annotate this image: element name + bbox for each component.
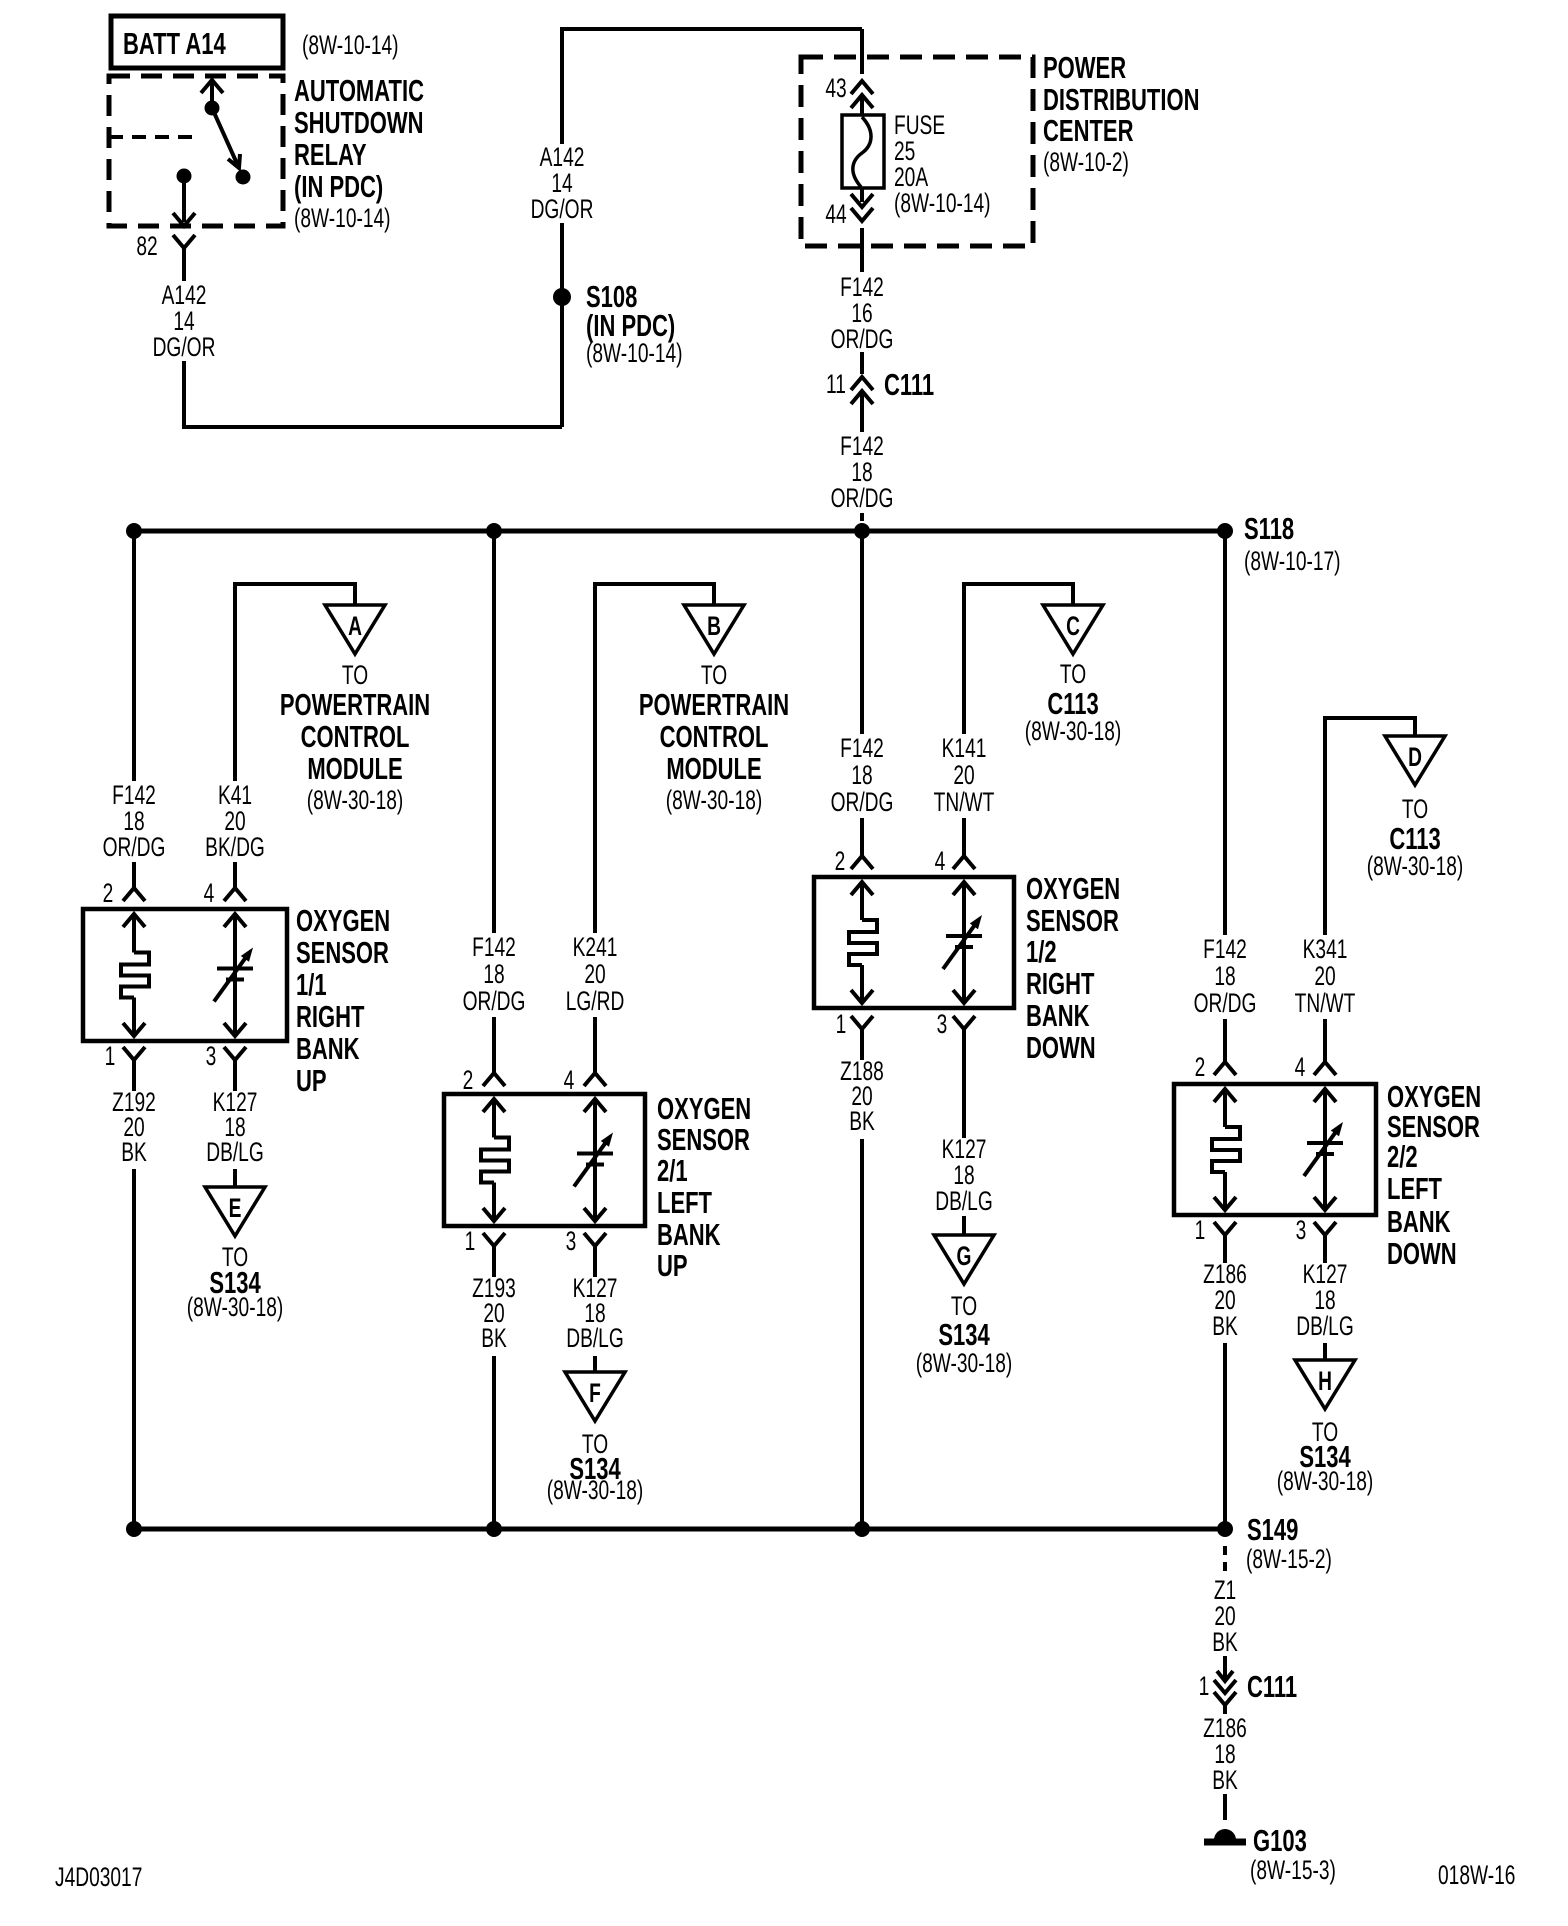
junction dot S118 col1	[126, 523, 142, 539]
wire F142 18 OR/DG to S118	[860, 392, 864, 432]
wire F142 18 OR/DG col4	[1223, 531, 1227, 935]
splice S149	[1217, 1521, 1233, 1537]
svg-text:F142: F142	[472, 932, 516, 962]
svg-text:CENTER: CENTER	[1043, 113, 1133, 148]
wire K41 col1 to PCM triangle A	[235, 584, 355, 781]
ASD relay arrow to BATT	[210, 82, 214, 108]
svg-text:018W-16: 018W-16	[1438, 1860, 1515, 1890]
svg-text:82: 82	[136, 231, 157, 261]
wire stub to triangle G	[962, 1216, 966, 1235]
svg-text:1: 1	[836, 1009, 847, 1039]
wire to pin 2 col4	[1223, 1019, 1227, 1063]
svg-text:2/1: 2/1	[657, 1153, 688, 1188]
svg-text:SENSOR: SENSOR	[657, 1122, 750, 1157]
ASD relay stationary contact	[236, 170, 251, 185]
wire stub to triangle E	[233, 1169, 237, 1187]
svg-text:POWERTRAIN: POWERTRAIN	[639, 687, 789, 722]
wire F142 18 OR/DG col1	[132, 531, 136, 781]
wire stub to triangle H	[1323, 1343, 1327, 1360]
wire to pin 2 col3	[860, 818, 864, 856]
svg-text:DG/OR: DG/OR	[531, 194, 594, 224]
svg-text:(8W-10-14): (8W-10-14)	[586, 338, 683, 368]
splice S108 (in PDC)	[553, 288, 571, 306]
junction dot S118 col2	[486, 523, 502, 539]
svg-text:DG/OR: DG/OR	[153, 332, 216, 362]
wire K127 from pin 3 col4	[1323, 1235, 1327, 1263]
svg-text:S118: S118	[1244, 511, 1294, 546]
svg-text:OR/DG: OR/DG	[831, 324, 894, 354]
svg-text:MODULE: MODULE	[666, 751, 761, 786]
svg-text:F: F	[589, 1378, 601, 1408]
svg-text:OXYGEN: OXYGEN	[1026, 871, 1120, 906]
wire F142 18 OR/DG col2	[492, 531, 496, 933]
svg-text:20: 20	[1314, 961, 1335, 991]
svg-text:2: 2	[835, 846, 846, 876]
svg-text:(8W-30-18): (8W-30-18)	[1277, 1466, 1374, 1496]
svg-text:BK: BK	[1212, 1765, 1238, 1795]
svg-text:(8W-30-18): (8W-30-18)	[666, 785, 763, 815]
svg-text:(8W-10-2): (8W-10-2)	[1043, 147, 1129, 177]
svg-text:DB/LG: DB/LG	[935, 1186, 993, 1216]
svg-text:BANK: BANK	[1387, 1204, 1451, 1239]
svg-text:3: 3	[566, 1226, 577, 1256]
wire K341 col4 to triangle D	[1325, 718, 1415, 935]
wire A142 down and right to S108 branch	[184, 361, 562, 427]
svg-text:K241: K241	[573, 932, 618, 962]
svg-text:RELAY: RELAY	[294, 137, 367, 172]
svg-text:BK: BK	[481, 1323, 507, 1353]
svg-text:18: 18	[1214, 961, 1235, 991]
svg-text:OXYGEN: OXYGEN	[657, 1091, 751, 1126]
svg-text:SHUTDOWN: SHUTDOWN	[294, 105, 424, 140]
power distribution center	[801, 57, 1033, 246]
oxygen sensor 1/2 right bank down	[814, 877, 1014, 1008]
svg-text:11: 11	[826, 369, 846, 399]
wire A142 14 DG/OR from relay pin 82	[182, 262, 186, 281]
wire to pin 4 col3	[962, 818, 966, 856]
svg-text:UP: UP	[296, 1063, 327, 1098]
wire to pin 4 col1	[233, 862, 237, 888]
oxygen sensor 2/2 left bank down	[1174, 1084, 1376, 1215]
wire Z1 into C111	[1223, 1656, 1227, 1680]
wire to pin 2 col2	[492, 1017, 496, 1073]
svg-text:BANK: BANK	[657, 1217, 721, 1252]
svg-text:BK/DG: BK/DG	[205, 832, 265, 862]
svg-text:2: 2	[463, 1065, 474, 1095]
wire K127 from pin 3	[233, 1060, 237, 1091]
svg-text:DOWN: DOWN	[1387, 1236, 1457, 1271]
svg-text:2: 2	[1195, 1052, 1206, 1082]
svg-text:1/1: 1/1	[296, 967, 327, 1002]
wire Z188 from pin 1	[860, 1029, 864, 1060]
wire K241 col2 to PCM triangle B	[595, 584, 714, 933]
svg-text:BK: BK	[1212, 1627, 1238, 1657]
wire to pin 2 col1	[132, 862, 136, 888]
svg-text:S149: S149	[1247, 1512, 1298, 1547]
svg-text:H: H	[1318, 1366, 1332, 1396]
connector C111 pin 1	[1217, 1671, 1233, 1681]
triangle E to S134	[205, 1187, 265, 1236]
ground G103	[1214, 1829, 1236, 1840]
svg-text:1: 1	[1195, 1215, 1206, 1245]
svg-text:G: G	[957, 1241, 972, 1271]
svg-text:OXYGEN: OXYGEN	[296, 903, 390, 938]
svg-text:J4D03017: J4D03017	[55, 1862, 142, 1892]
dashed wire below S149	[1223, 1546, 1227, 1575]
svg-text:BANK: BANK	[296, 1031, 360, 1066]
svg-text:DOWN: DOWN	[1026, 1030, 1096, 1065]
triangle H to S134	[1295, 1360, 1355, 1409]
wire fuse to pin 44	[860, 188, 864, 202]
junction dot S149 col2	[486, 1521, 502, 1537]
svg-text:BANK: BANK	[1026, 998, 1090, 1033]
wire pin43 to fuse	[860, 96, 864, 116]
svg-text:BATT A14: BATT A14	[123, 26, 226, 61]
svg-text:3: 3	[1296, 1215, 1307, 1245]
svg-text:G103: G103	[1253, 1823, 1307, 1858]
svg-text:POWER: POWER	[1043, 50, 1126, 85]
svg-text:OR/DG: OR/DG	[1194, 988, 1257, 1018]
svg-text:BK: BK	[849, 1106, 875, 1136]
battery feed fuse block BATT A14	[111, 16, 283, 68]
svg-text:TN/WT: TN/WT	[1295, 988, 1356, 1018]
wire to pin 4 col4	[1323, 1019, 1327, 1063]
ASD relay movable contact arm	[212, 108, 239, 168]
svg-text:4: 4	[935, 846, 946, 876]
svg-text:1: 1	[105, 1041, 116, 1071]
svg-text:SENSOR: SENSOR	[296, 935, 389, 970]
svg-text:DB/LG: DB/LG	[206, 1137, 264, 1167]
triangle B to powertrain control module	[684, 605, 744, 654]
junction dot S149 col3	[854, 1521, 870, 1537]
triangle F to S134	[565, 1372, 625, 1421]
svg-text:DB/LG: DB/LG	[566, 1323, 624, 1353]
svg-text:F142: F142	[840, 733, 884, 763]
svg-text:OR/DG: OR/DG	[463, 986, 526, 1016]
svg-text:K141: K141	[942, 733, 987, 763]
svg-text:1/2: 1/2	[1026, 934, 1057, 969]
splice S118	[1217, 523, 1233, 539]
svg-text:(8W-10-14): (8W-10-14)	[302, 30, 399, 60]
O2 1/2 heater and sense elements	[851, 882, 873, 895]
svg-text:TO: TO	[701, 660, 727, 690]
wire Z193 to S149 bus	[492, 1356, 496, 1529]
svg-text:18: 18	[483, 959, 504, 989]
svg-text:2/2: 2/2	[1387, 1139, 1418, 1174]
wire A142 above label to top corner	[560, 29, 564, 144]
oxygen sensor 1/1 right bank up	[83, 909, 287, 1041]
svg-text:DISTRIBUTION: DISTRIBUTION	[1043, 82, 1199, 117]
bus wire splice S149	[134, 1527, 1225, 1532]
svg-text:18: 18	[851, 760, 872, 790]
ASD relay output arrow	[182, 176, 186, 222]
svg-text:20: 20	[953, 760, 974, 790]
wire K127 from pin 3 col3	[962, 1029, 966, 1138]
wire A142 top horizontal to PDC	[560, 27, 862, 31]
wire Z193 from pin 1	[492, 1246, 496, 1277]
svg-text:A: A	[348, 611, 362, 641]
wire to connector C111	[860, 352, 864, 374]
svg-text:(8W-10-14): (8W-10-14)	[894, 188, 991, 218]
svg-text:43: 43	[825, 73, 846, 103]
triangle D to C113	[1385, 736, 1445, 785]
svg-text:C111: C111	[884, 367, 934, 402]
wire Z188 to S149 bus	[860, 1139, 864, 1529]
svg-text:K341: K341	[1303, 934, 1348, 964]
svg-text:BK: BK	[1212, 1311, 1238, 1341]
svg-text:4: 4	[564, 1065, 575, 1095]
wire F142 18 OR/DG col3	[860, 531, 864, 734]
svg-text:2: 2	[103, 878, 114, 908]
svg-text:B: B	[707, 611, 721, 641]
svg-text:(IN PDC): (IN PDC)	[294, 169, 383, 204]
wire to pin 4 col2	[593, 1017, 597, 1073]
dashed wire into splice S118	[860, 513, 864, 528]
wire K127 from pin 3 col2	[593, 1246, 597, 1277]
svg-text:(8W-10-14): (8W-10-14)	[294, 203, 391, 233]
fuse 25 (20A)	[842, 115, 884, 188]
svg-text:TO: TO	[342, 660, 368, 690]
svg-text:(8W-30-18): (8W-30-18)	[307, 785, 404, 815]
bus wire splice S118	[132, 529, 1227, 534]
svg-text:(8W-30-18): (8W-30-18)	[187, 1292, 284, 1322]
svg-text:OR/DG: OR/DG	[831, 787, 894, 817]
svg-text:F142: F142	[1203, 934, 1247, 964]
svg-text:DB/LG: DB/LG	[1296, 1311, 1354, 1341]
junction dot S118 col3	[854, 523, 870, 539]
svg-text:3: 3	[937, 1009, 948, 1039]
svg-text:POWERTRAIN: POWERTRAIN	[280, 687, 430, 722]
svg-text:TO: TO	[1060, 659, 1086, 689]
ASD relay coil-side contact	[205, 101, 220, 116]
svg-text:4: 4	[204, 878, 215, 908]
svg-text:LG/RD: LG/RD	[566, 986, 625, 1016]
svg-text:TO: TO	[1402, 794, 1428, 824]
wire K141 col3 to triangle C	[964, 584, 1073, 734]
svg-text:C111: C111	[1247, 1669, 1297, 1704]
svg-text:(8W-15-2): (8W-15-2)	[1246, 1544, 1332, 1574]
svg-text:1: 1	[465, 1226, 476, 1256]
O2 2/2 heater and sense elements	[1214, 1089, 1236, 1102]
wire F142 16 OR/DG below PDC	[860, 228, 864, 272]
svg-text:TO: TO	[951, 1291, 977, 1321]
svg-text:(8W-30-18): (8W-30-18)	[1025, 716, 1122, 746]
triangle C to C113	[1043, 605, 1103, 654]
svg-text:OR/DG: OR/DG	[831, 483, 894, 513]
svg-text:RIGHT: RIGHT	[296, 999, 365, 1034]
automatic shutdown relay (in PDC)	[109, 76, 283, 226]
svg-text:(8W-15-3): (8W-15-3)	[1250, 1855, 1336, 1885]
O2 2/1 heater and sense elements	[483, 1099, 505, 1112]
svg-text:1: 1	[1199, 1671, 1210, 1701]
svg-text:CONTROL: CONTROL	[660, 719, 769, 754]
svg-text:(8W-30-18): (8W-30-18)	[547, 1475, 644, 1505]
svg-text:(8W-10-17): (8W-10-17)	[1244, 546, 1341, 576]
O2 1/1 heater and sense elements	[123, 914, 145, 927]
triangle A to powertrain control module	[325, 605, 385, 654]
svg-text:44: 44	[825, 199, 846, 229]
svg-text:SENSOR: SENSOR	[1026, 903, 1119, 938]
svg-text:20: 20	[584, 959, 605, 989]
oxygen sensor 2/1 left bank up	[444, 1094, 645, 1226]
svg-text:MODULE: MODULE	[307, 751, 402, 786]
svg-text:S134: S134	[938, 1317, 989, 1352]
svg-text:BK: BK	[121, 1137, 147, 1167]
wire into PDC	[860, 29, 864, 74]
svg-text:AUTOMATIC: AUTOMATIC	[294, 73, 424, 108]
svg-text:(8W-30-18): (8W-30-18)	[1367, 851, 1464, 881]
svg-text:LEFT: LEFT	[1387, 1171, 1442, 1206]
svg-text:(8W-30-18): (8W-30-18)	[916, 1348, 1013, 1378]
svg-text:RIGHT: RIGHT	[1026, 966, 1095, 1001]
svg-text:CONTROL: CONTROL	[301, 719, 410, 754]
svg-text:E: E	[229, 1193, 242, 1223]
svg-text:OR/DG: OR/DG	[103, 832, 166, 862]
junction dot S149 col1	[126, 1521, 142, 1537]
triangle G to S134	[934, 1235, 994, 1284]
wire A142 vertical to splice S108	[560, 223, 564, 427]
wire Z192 from pin 1	[132, 1060, 136, 1091]
ASD relay output contact	[177, 169, 192, 184]
svg-text:4: 4	[1295, 1052, 1306, 1082]
wire Z186 from pin 1	[1223, 1235, 1227, 1263]
wire Z186 to splice S149	[1223, 1343, 1227, 1529]
svg-text:3: 3	[206, 1041, 217, 1071]
svg-text:LEFT: LEFT	[657, 1185, 712, 1220]
svg-text:UP: UP	[657, 1248, 688, 1283]
wire Z192 to S149 bus	[132, 1169, 136, 1529]
svg-text:D: D	[1408, 742, 1422, 772]
svg-text:C: C	[1066, 611, 1080, 641]
wire stub to triangle F	[593, 1356, 597, 1372]
svg-text:TN/WT: TN/WT	[934, 787, 995, 817]
wire Z186 to ground	[1223, 1794, 1227, 1820]
